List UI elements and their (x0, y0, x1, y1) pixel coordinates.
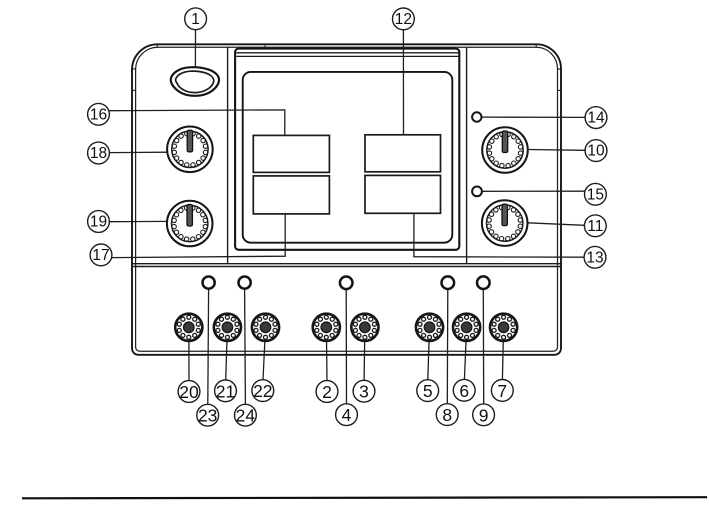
callout label 21 (215, 380, 237, 402)
oval button inner outline (176, 71, 214, 93)
rim tick top-left corner (157, 44, 265, 48)
leader line to small knob (21) (226, 330, 228, 380)
leader line to screen rect (16) (109, 110, 285, 135)
rotary knob 11 (482, 200, 528, 246)
leader line to small knob (20) (188, 330, 190, 381)
leader line to LED (23) (207, 289, 210, 404)
LED indicator 4 (340, 277, 353, 290)
svg-text:4: 4 (342, 405, 352, 425)
svg-text:16: 16 (90, 106, 107, 123)
leader line to LED (8) (446, 289, 449, 404)
LED indicator 23 (203, 277, 215, 289)
rim tick top-right corner (535, 44, 537, 48)
lower section top divider (double line) (132, 264, 561, 267)
leader line to LED (14) (482, 116, 585, 118)
small knob 21 (214, 314, 241, 341)
leader line to knob (11) (528, 223, 585, 226)
leader line to small knob (7) (502, 330, 503, 380)
callout label 18 (88, 142, 110, 164)
oval button outer outline (1) (171, 67, 219, 96)
LED indicator 9 (477, 276, 490, 289)
svg-text:2: 2 (322, 382, 332, 402)
small knob 6 (453, 314, 480, 341)
callout label 11 (584, 215, 606, 237)
svg-text:15: 15 (587, 186, 604, 203)
svg-text:8: 8 (442, 405, 452, 425)
display bezel top edge line 3 (236, 55, 458, 57)
screen field rect upper-right (365, 135, 441, 172)
svg-text:21: 21 (216, 381, 235, 401)
svg-text:23: 23 (198, 406, 217, 426)
display screen window (243, 72, 453, 243)
leader line to small knob (3) (363, 330, 366, 380)
callout label 6 (453, 379, 475, 401)
svg-text:24: 24 (236, 406, 256, 426)
rim tick right top (557, 69, 562, 91)
leader line to oval button (1) (194, 29, 196, 67)
callout label 24 (235, 404, 257, 426)
leader line to small knob (22) (263, 330, 265, 380)
leader line to LED (15) (482, 190, 585, 192)
leader line to small knob (2) (325, 330, 328, 381)
callout label 19 (88, 211, 110, 233)
callout label 15 (585, 183, 607, 205)
right section divider line (466, 47, 468, 263)
small knob 7 (490, 314, 517, 341)
leader line to screen rect (12) (402, 30, 404, 135)
leader line to small knob (5) (428, 330, 430, 380)
screen field rect lower-left (253, 176, 329, 214)
display bezel outer frame (235, 49, 459, 250)
svg-text:12: 12 (395, 11, 412, 28)
callout label 3 (353, 380, 375, 402)
rim tick left top (132, 69, 137, 91)
leader line to knob (18) (109, 151, 167, 153)
LED indicator 15 (472, 187, 482, 197)
rotary knob 19 (167, 201, 213, 247)
callout label 22 (252, 380, 274, 402)
callout label 17 (90, 244, 112, 266)
callout label 13 (584, 246, 606, 268)
callout label 20 (178, 381, 200, 403)
svg-text:1: 1 (191, 11, 200, 28)
callout label 2 (316, 381, 338, 403)
rotary knob 18 (167, 127, 213, 173)
callout label 7 (491, 380, 513, 402)
display bezel top edge line 2 (236, 52, 458, 54)
leader line to small knob (6) (464, 330, 466, 380)
svg-text:14: 14 (587, 110, 605, 127)
svg-text:17: 17 (92, 247, 109, 264)
page bottom rule (22, 497, 707, 498)
svg-text:18: 18 (90, 145, 107, 162)
screen field rect upper-left (253, 135, 329, 172)
small knob 2 (313, 314, 340, 341)
svg-text:9: 9 (479, 405, 489, 425)
svg-text:13: 13 (586, 249, 603, 266)
screen field rect lower-right (365, 175, 441, 213)
rotary knob 10 (482, 127, 528, 173)
small knob 3 (351, 314, 378, 341)
svg-text:20: 20 (179, 382, 199, 402)
callout label 4 (336, 404, 358, 426)
callout label 8 (436, 404, 458, 426)
svg-text:19: 19 (90, 214, 107, 231)
leader line to LED (4) (345, 289, 347, 404)
callout label 23 (197, 404, 219, 426)
small knob 22 (252, 314, 279, 341)
LED indicator 8 (442, 276, 455, 289)
callout label 14 (585, 107, 607, 129)
callout label 9 (473, 404, 495, 426)
svg-text:11: 11 (587, 218, 603, 235)
LED indicator 24 (239, 277, 251, 289)
leader line to knob (10) (528, 149, 585, 152)
callout label 5 (417, 380, 439, 402)
small knob 5 (416, 314, 443, 341)
svg-text:3: 3 (359, 382, 369, 402)
LED indicator 14 (472, 112, 481, 121)
callout label 10 (585, 140, 607, 162)
svg-text:10: 10 (587, 143, 605, 160)
leader line to screen rect (13) (414, 214, 584, 258)
callout label 12 (393, 8, 415, 30)
leader line to LED (9) (482, 289, 484, 404)
callout label 16 (88, 103, 110, 125)
leader line to screen rect (17) (112, 214, 285, 258)
panel inner rim line (136, 47, 558, 351)
leader line to knob (19) (109, 220, 167, 222)
svg-text:5: 5 (423, 381, 433, 401)
small knob 20 (175, 314, 202, 341)
left section divider line (227, 47, 229, 263)
panel outer outline (132, 44, 561, 355)
callout label 1 (185, 8, 207, 30)
leader line to LED (24) (244, 289, 247, 404)
svg-text:7: 7 (497, 381, 507, 401)
svg-text:6: 6 (459, 381, 469, 401)
svg-text:22: 22 (253, 381, 272, 401)
